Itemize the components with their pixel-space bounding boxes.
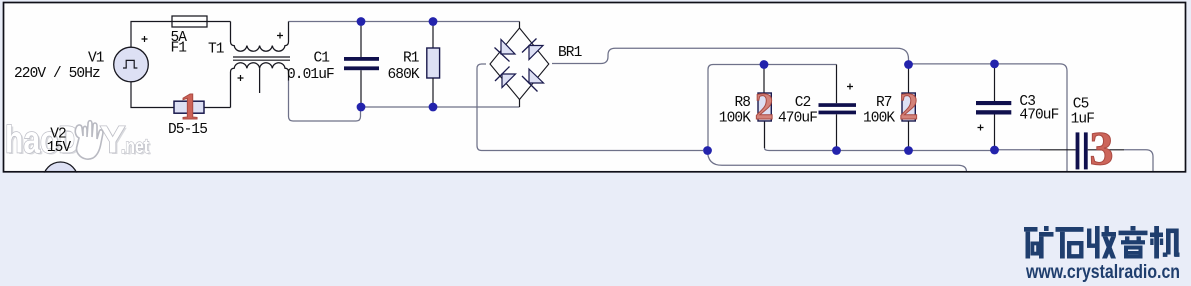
wire V1 bottom to D5-15 — [131, 82, 174, 108]
svg-text:1: 1 — [180, 86, 199, 128]
varistor D5-15 — [174, 101, 204, 113]
node: R8 top junction — [760, 60, 769, 69]
wire: output right exit after C5 — [1124, 150, 1153, 172]
svg-text:.net: .net — [121, 136, 149, 158]
wire: lower output rail R8-C2-R7-C3 — [764, 121, 766, 148]
svg-text:470uF: 470uF — [1019, 108, 1058, 124]
diode D upper-left — [501, 40, 515, 55]
svg-text:100K: 100K — [863, 111, 895, 127]
svg-text:www.crystalradio.cn: www.crystalradio.cn — [1025, 262, 1180, 283]
svg-text:R1: R1 — [403, 51, 419, 67]
node: R1 top junction — [429, 17, 438, 26]
source V1 — [114, 47, 149, 82]
node: C1 top junction — [357, 17, 366, 26]
diode D lower-left — [502, 74, 516, 88]
svg-text:470uF: 470uF — [778, 111, 817, 127]
bridge BR1 leads — [519, 22, 521, 29]
wire: top rail from transformer to bridge — [289, 21, 520, 23]
diode D lower-right — [529, 69, 544, 83]
capacitor C2 — [836, 65, 838, 104]
wire: bridge left terminal down and right to lower rail — [477, 64, 703, 151]
node: lower-left rail junction — [703, 146, 712, 155]
wire: bridge right terminal jog up to +48 rail — [552, 48, 909, 64]
diode D upper-right — [529, 46, 543, 60]
transformer center tap stub — [259, 68, 261, 93]
logo chinese characters 矿石收音机 — [1024, 226, 1180, 259]
wire: node line R8/C2 — [708, 65, 764, 151]
schematic frame — [4, 3, 1186, 172]
resistor R8 — [763, 65, 765, 94]
svg-text:2: 2 — [755, 86, 774, 128]
plus mark T1 primary — [277, 33, 283, 39]
svg-text:F1: F1 — [171, 41, 187, 57]
plus mark V1 — [142, 36, 148, 42]
plus mark C3 — [978, 125, 984, 131]
svg-text:BR1: BR1 — [558, 45, 582, 61]
bridge diamond — [490, 28, 549, 100]
svg-text:R8: R8 — [735, 95, 751, 111]
svg-text:T1: T1 — [208, 42, 224, 58]
wire V1 top to fuse — [131, 22, 172, 48]
node: C3 top junction — [990, 60, 999, 69]
wire: node line R7 to C3 and output corner — [909, 63, 1061, 65]
svg-text:3: 3 — [1090, 123, 1114, 176]
svg-text:C5: C5 — [1073, 97, 1089, 113]
schematic white canvas — [4, 3, 1186, 172]
transformer T1 secondary winding — [231, 63, 289, 108]
capacitor C1 — [360, 22, 362, 58]
resistor R1 — [432, 22, 434, 49]
watermark hand — [75, 121, 103, 160]
transformer T1 primary winding — [231, 22, 289, 52]
node: C1 bottom junction — [357, 103, 366, 112]
transformer core — [233, 56, 290, 58]
plus mark T1 secondary — [238, 75, 244, 81]
plus mark C2 — [847, 84, 853, 90]
capacitor C5 — [1040, 149, 1076, 151]
svg-text:2: 2 — [899, 86, 918, 128]
svg-text:100K: 100K — [719, 111, 751, 127]
wire: lower dip wire from left node to bottom exit — [708, 151, 967, 172]
fuse F1 — [172, 16, 207, 27]
resistor R7 — [908, 65, 910, 94]
svg-text:680K: 680K — [388, 67, 420, 83]
svg-text:C1: C1 — [314, 51, 330, 67]
node: R1 bottom junction — [429, 103, 438, 112]
svg-text:V1: V1 — [88, 51, 104, 67]
svg-text:220V / 50Hz: 220V / 50Hz — [14, 66, 100, 82]
wire: bottom rail C1/R1 to bridge bottom — [361, 106, 520, 108]
capacitor C3 — [994, 64, 996, 101]
node: R7 bottom junction — [904, 146, 913, 155]
node: C2 bottom junction — [832, 146, 841, 155]
svg-text:C2: C2 — [795, 95, 811, 111]
wire fuse to transformer primary — [207, 21, 231, 23]
source V2 (clipped by frame) — [43, 162, 78, 197]
node: R7 top junction — [904, 60, 913, 69]
wire D5-15 to transformer secondary — [204, 107, 231, 109]
svg-text:R7: R7 — [876, 95, 892, 111]
footer band — [0, 173, 1191, 286]
svg-text:0.01uF: 0.01uF — [287, 67, 334, 83]
watermark — [5, 120, 151, 164]
node: C3 bottom junction — [990, 146, 999, 155]
wire: transformer secondary right lead jog to C1 bottom node — [289, 80, 361, 121]
svg-text:15V: 15V — [47, 140, 72, 156]
